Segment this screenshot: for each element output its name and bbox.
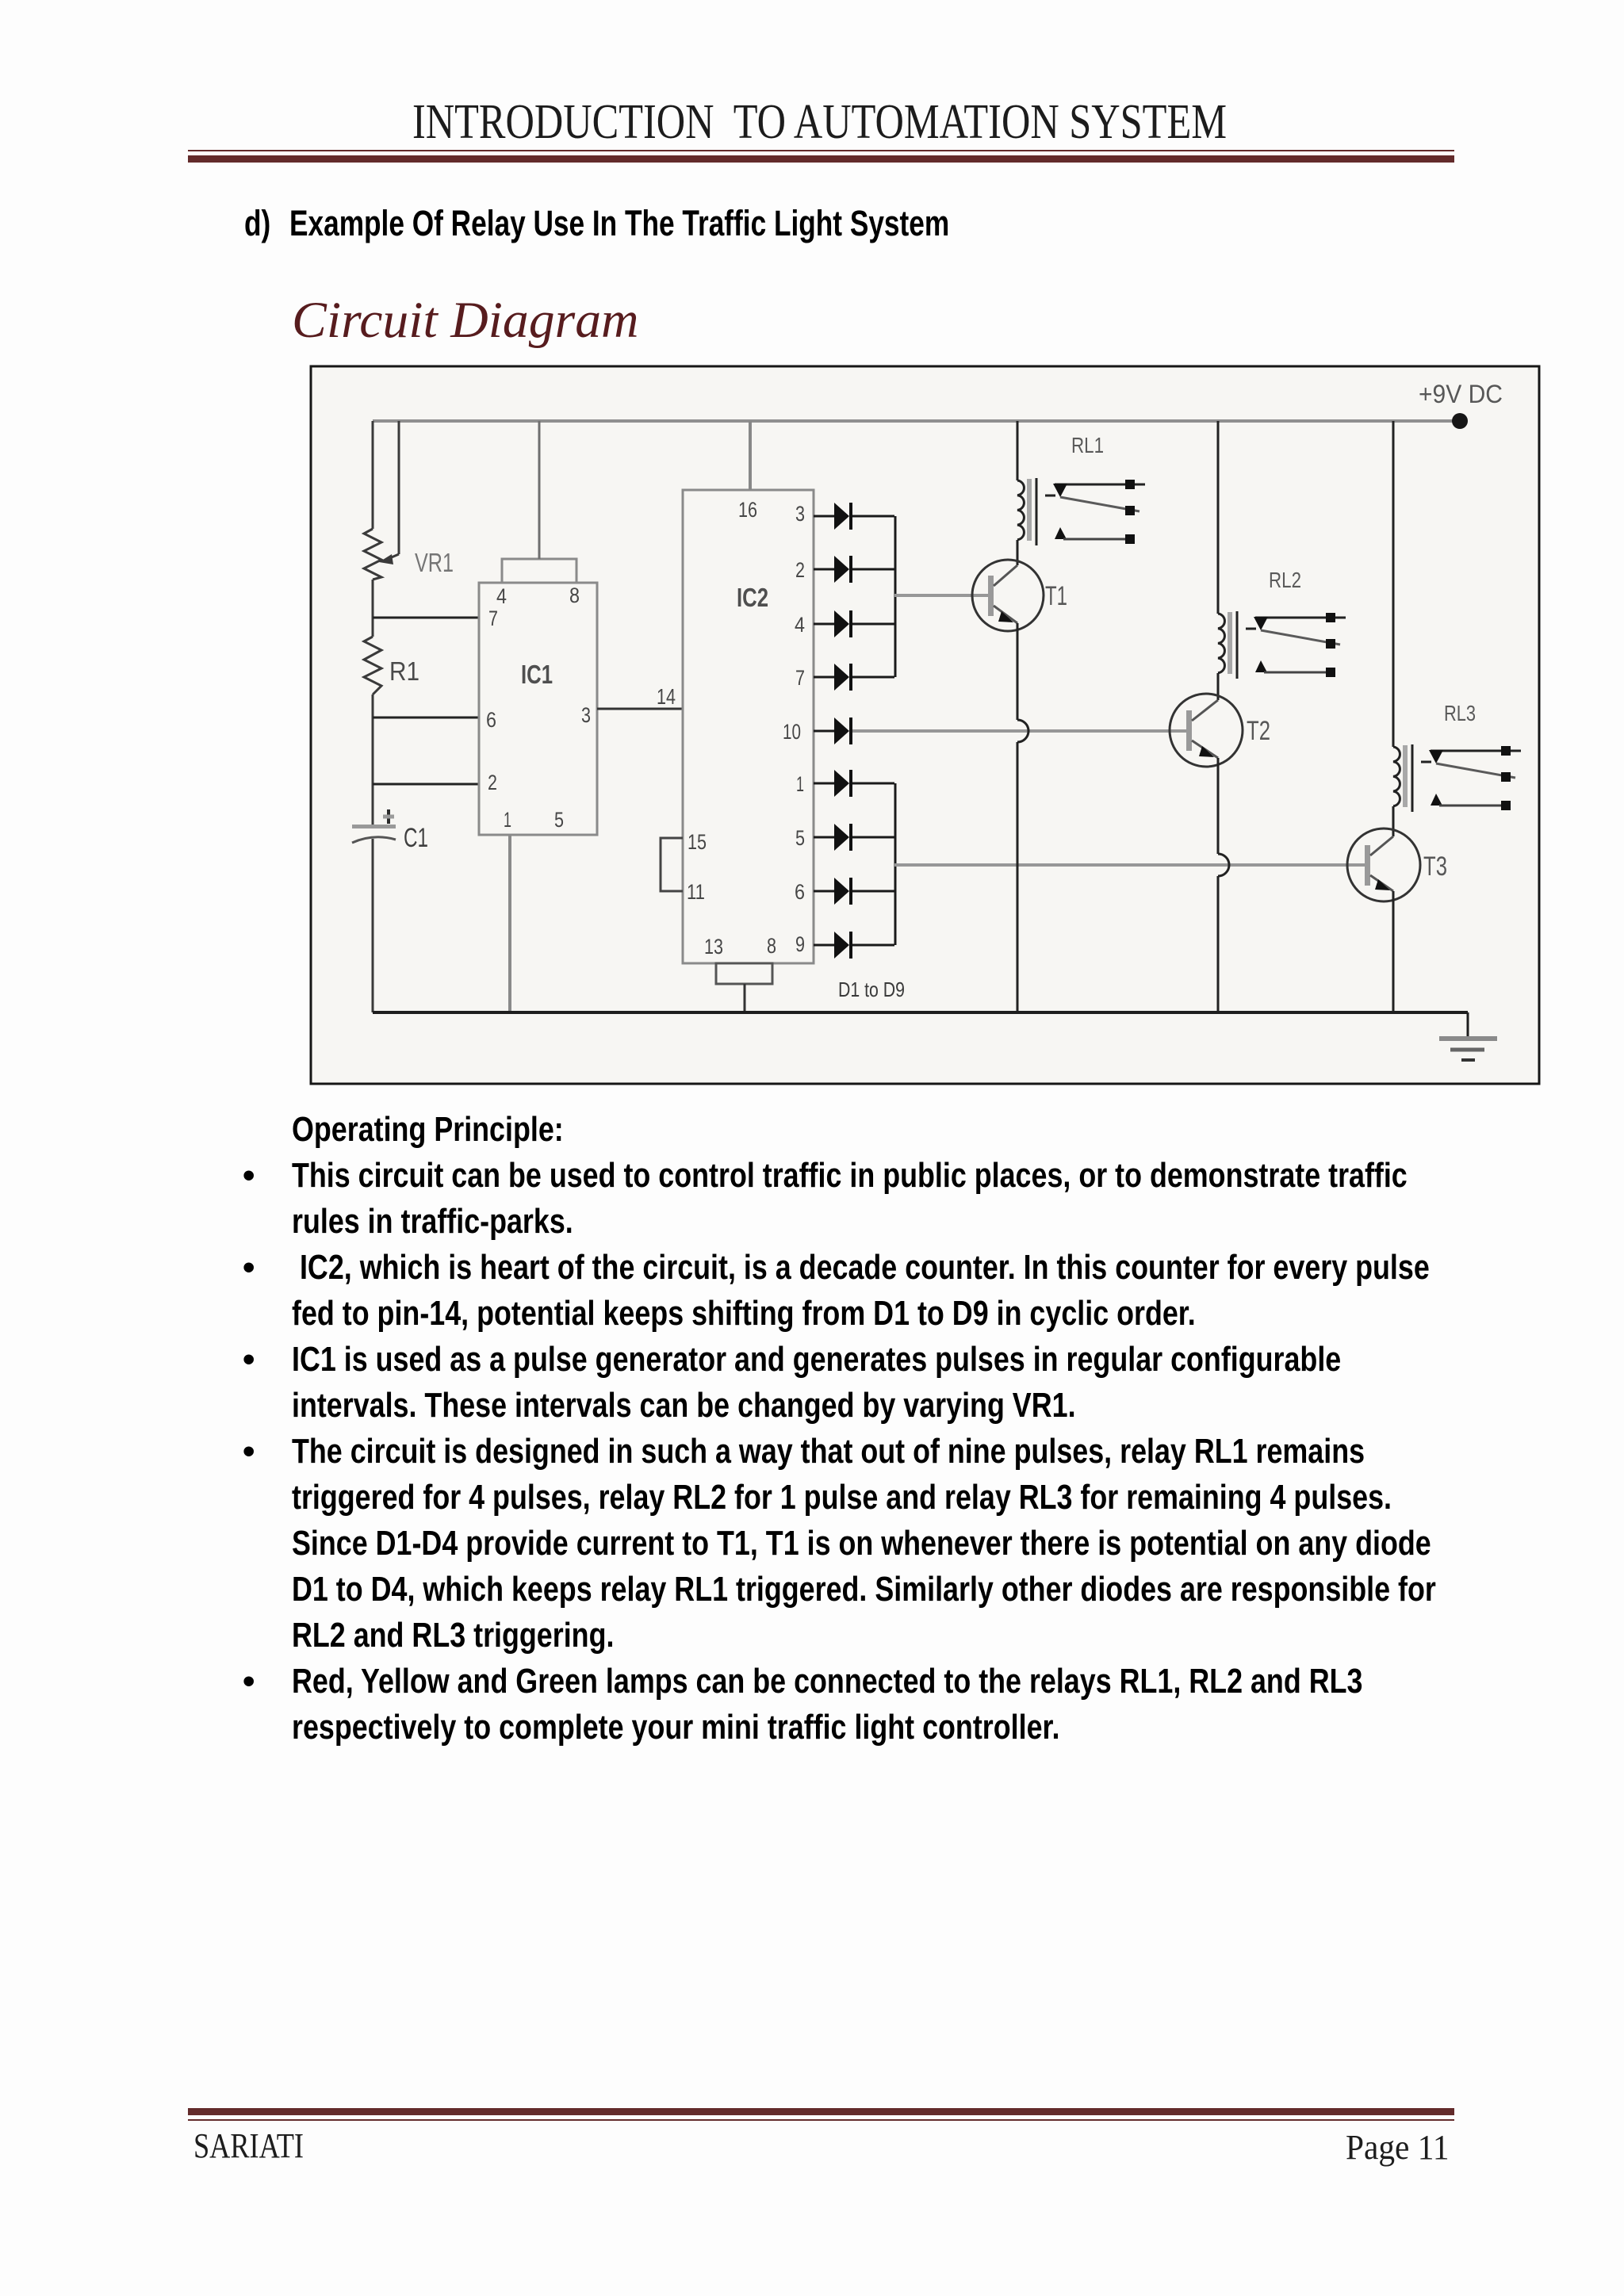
pin 8 (IC2) [767, 934, 776, 958]
svg-text:2: 2 [795, 558, 805, 582]
relay RL3 [1393, 744, 1521, 812]
pin 15 [688, 830, 707, 854]
svg-text:13: 13 [704, 935, 723, 959]
pin 16 [738, 498, 757, 522]
diode D1 [814, 503, 894, 530]
svg-text:IC2: IC2 [737, 583, 768, 612]
section heading d) [244, 205, 270, 241]
pin 2 (IC2) [795, 558, 805, 582]
svg-text:1: 1 [796, 772, 804, 796]
wire: top rail to RL1 coil [1017, 421, 1019, 480]
svg-text:T2: T2 [1247, 716, 1270, 746]
wire: +9V top rail [373, 419, 1460, 423]
svg-text:11: 11 [687, 880, 705, 904]
wire: RL2 coil to T2 collector [1217, 673, 1220, 700]
page header title [412, 98, 1227, 147]
pin 13 [704, 935, 723, 959]
pin 10 (IC2) [783, 720, 801, 744]
schematic frame [311, 366, 1539, 1084]
label C1 [404, 823, 428, 853]
header rule thin [188, 150, 1454, 151]
bullets [243, 1158, 255, 1193]
wire: IC1 pin4/8 to top rail [538, 421, 541, 559]
pin 6 [486, 708, 496, 732]
wire: rail to ground symbol [1467, 1012, 1469, 1038]
svg-text:15: 15 [688, 830, 707, 854]
pin 5 [554, 808, 564, 832]
ground [1439, 1039, 1497, 1060]
footer rule thick [188, 2108, 1454, 2115]
pin 5 (IC2) [795, 826, 805, 850]
label RL2 [1269, 568, 1301, 592]
pin 3 [581, 703, 591, 727]
svg-text:14: 14 [657, 684, 676, 709]
pin 8 [569, 584, 580, 607]
svg-text:3: 3 [581, 703, 591, 727]
Circuit Diagram heading [292, 295, 639, 346]
node +9V junction dot [1452, 413, 1468, 429]
wire: pin2 branch [373, 783, 479, 786]
svg-text:4: 4 [496, 584, 507, 608]
relay RL2 [1218, 611, 1346, 679]
svg-text:RL1: RL1 [1071, 433, 1104, 457]
svg-text:6: 6 [486, 708, 496, 732]
svg-text:16: 16 [738, 498, 757, 522]
svg-text:7: 7 [795, 666, 805, 690]
IC2 bottom notch [716, 963, 772, 984]
wire: T3 emitter to bottom rail [1392, 891, 1395, 1012]
wire: bus to T1 base [894, 594, 988, 597]
label RL1 [1071, 433, 1104, 457]
label IC1 [521, 660, 553, 689]
wire: IC1 pin3 to IC2 pin14 [597, 708, 684, 710]
op-amp timer IC1 [479, 583, 597, 835]
svg-text:8: 8 [767, 934, 776, 958]
wire: R1 to C1 [372, 695, 374, 826]
footer right [1346, 2130, 1450, 2165]
diode D6 [814, 770, 894, 797]
diode D9 [814, 932, 894, 959]
wire: C1 to bottom rail [372, 839, 374, 1012]
svg-text:RL3: RL3 [1444, 701, 1476, 725]
label T1 [1045, 581, 1067, 611]
footer left [193, 2129, 304, 2164]
svg-text:IC1: IC1 [521, 660, 553, 689]
IC1 top notch [502, 559, 576, 583]
wire: ground bottom rail [373, 1011, 1468, 1014]
wire: lower diode bus [894, 783, 897, 945]
diode D5 [814, 717, 851, 744]
svg-text:VR1: VR1 [415, 548, 454, 577]
label T2 [1247, 716, 1270, 746]
svg-text:5: 5 [795, 826, 805, 850]
wire: pin6 branch [373, 717, 479, 719]
VR1 wiper wire [379, 421, 399, 564]
label RL3 [1444, 701, 1476, 725]
decade counter IC2 [683, 490, 814, 963]
label R1 [389, 656, 419, 686]
wire: RL3 coil to T3 collector [1392, 806, 1395, 836]
operating principle text [292, 1112, 564, 1147]
label +9V DC [1419, 380, 1503, 408]
svg-text:4: 4 [795, 613, 805, 637]
pin 4 [496, 584, 507, 608]
wire: left vertical (top to VR1) [372, 421, 374, 529]
pin 2 [488, 771, 497, 794]
wire: lower bus to T3 base [894, 863, 1365, 867]
wire: VR1 to R1 [372, 580, 374, 637]
diode D3 [814, 610, 894, 637]
transistor T3 [1347, 828, 1420, 901]
transistor T1 [972, 560, 1044, 631]
diode D2 [814, 556, 894, 583]
svg-text:10: 10 [783, 720, 801, 744]
svg-text:C1: C1 [404, 823, 428, 853]
svg-text:T1: T1 [1045, 581, 1067, 611]
svg-text:9: 9 [795, 932, 805, 956]
wire: top rail to RL2 coil [1217, 421, 1220, 614]
pin 1 [504, 808, 511, 832]
relay RL1 [1017, 478, 1145, 545]
transistor T2 [1170, 694, 1243, 767]
svg-text:R1: R1 [389, 656, 419, 686]
pin 6 (IC2) [795, 880, 805, 904]
wire: upper diode bus [894, 516, 897, 677]
pin 9 (IC2) [795, 932, 805, 956]
wire: IC2 pin16 to top rail [749, 421, 752, 490]
svg-text:+9V DC: +9V DC [1419, 380, 1503, 408]
wire: IC1 pin1 to bottom rail [508, 835, 511, 1012]
svg-text:D1 to D9: D1 to D9 [838, 978, 905, 1001]
label T3 [1423, 851, 1447, 882]
wire: pin7 branch [373, 617, 479, 619]
svg-text:6: 6 [795, 880, 805, 904]
svg-text:2: 2 [488, 771, 497, 794]
wire: RL1 coil to T1 collector [1017, 540, 1019, 565]
svg-text:RL2: RL2 [1269, 568, 1301, 592]
resistor R1 [364, 637, 381, 695]
diode D4 [814, 664, 894, 691]
pin 7 (IC2) [795, 666, 805, 690]
pin 1 (IC2) [796, 772, 804, 796]
svg-text:T3: T3 [1423, 851, 1447, 882]
potentiometer VR1 [364, 529, 381, 580]
footer rule thin [188, 2119, 1454, 2121]
diode D7 [814, 824, 894, 851]
wire: T2 emitter down (hop over T3 base wire) [1218, 758, 1229, 1012]
wire: top rail to RL3 coil [1392, 421, 1395, 747]
capacitor C1 [352, 809, 396, 843]
diode D8 [814, 878, 894, 905]
pin 3 (IC2) [795, 502, 805, 526]
pin 11 [687, 880, 705, 904]
pin 4 (IC2) [795, 613, 805, 637]
pin 7 [488, 607, 498, 630]
label IC2 [737, 583, 768, 612]
wire: D5 to T2 base [852, 729, 1186, 733]
wire: pin15-pin11 loop [661, 838, 683, 891]
pin 14 [657, 684, 676, 709]
svg-text:8: 8 [569, 584, 580, 607]
svg-text:1: 1 [504, 808, 511, 832]
label VR1 [415, 548, 454, 577]
svg-text:3: 3 [795, 502, 805, 526]
svg-text:5: 5 [554, 808, 564, 832]
wire: IC2 bottom to rail [744, 984, 746, 1012]
label D1 to D9 [838, 978, 905, 1001]
wire: T1 emitter down (hop over D5 wire) [1017, 623, 1028, 1012]
svg-text:7: 7 [488, 607, 498, 630]
header rule thick [188, 155, 1454, 163]
